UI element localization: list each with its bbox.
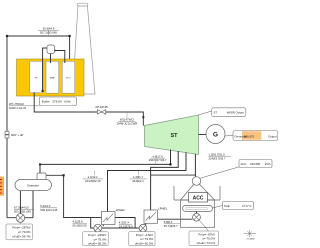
svg-text:1MW-JC1LCWR: 1MW-JC1LCWR — [117, 121, 138, 125]
stream label T3 — [117, 112, 138, 125]
ACC label box — [189, 193, 208, 203]
wire LPHE2 right to pump Pb — [115, 218, 139, 229]
ACC duty label box — [239, 160, 272, 168]
svg-text:60.7|0|66.7: 60.7|0|66.7 — [164, 224, 178, 228]
stream label e — [209, 152, 232, 160]
generator output label box — [233, 131, 278, 141]
wire extraction 3 (to LPHE2) — [108, 152, 187, 211]
svg-text:u= 75.0%: u= 75.0% — [202, 237, 215, 241]
svg-text:60.2|0|3.09: 60.2|0|3.09 — [73, 223, 87, 227]
leader to ST output box — [199, 111, 212, 115]
wire deaerator dome riser — [39, 165, 41, 174]
boiler furnace box — [17, 59, 85, 96]
wire main steam: SH down, across to turbine — [34, 92, 143, 125]
node dot drum right — [54, 50, 56, 52]
svg-text:W6SR Output: W6SR Output — [227, 110, 244, 114]
wire LPHE2 left run — [91, 217, 102, 219]
wire feedwater pump run — [7, 217, 33, 219]
svg-text:LPHE2: LPHE2 — [116, 208, 125, 212]
svg-text:ST: ST — [214, 110, 218, 114]
stream label f — [119, 221, 133, 229]
wire deaerator to feed pump — [19, 191, 21, 213]
svg-text:kVth: kVth — [265, 162, 271, 166]
stream label T1 — [38, 27, 59, 36]
valve V1 main steam — [97, 110, 105, 115]
node dot deaerator riser corner — [39, 163, 41, 165]
svg-text:244.8|0|2.18: 244.8|0|2.18 — [85, 179, 101, 183]
heat exchanger LPHE2 — [102, 208, 126, 225]
svg-text:ST: ST — [171, 133, 179, 139]
svg-text:LPHE1: LPHE1 — [158, 207, 167, 211]
svg-text:24.1|0|79.0: 24.1|0|79.0 — [119, 225, 133, 229]
steam turbine ST — [145, 115, 199, 155]
chimney stack — [72, 3, 95, 94]
stream label g — [164, 220, 180, 228]
svg-text:EVAP: EVAP — [50, 77, 56, 80]
wire deaerator drain 2 — [32, 191, 34, 218]
wire LPHE1 drain stub — [145, 223, 147, 225]
svg-text:uKuE= 74.0%: uKuE= 74.0% — [197, 241, 216, 245]
svg-text:Boiler 376.04 kVth: Boiler 376.04 kVth — [42, 100, 71, 104]
svg-text:u= 79.0%: u= 79.0% — [18, 230, 31, 234]
svg-text:ECO: ECO — [66, 78, 71, 80]
node dot ext1 corner — [169, 163, 171, 165]
svg-text:509.4|0|1.045: 509.4|0|1.045 — [40, 208, 57, 212]
svg-text:Pmp= -4.5kV: Pmp= -4.5kV — [136, 233, 153, 237]
wire feedwater top line — [7, 36, 70, 63]
svg-text:244|0|2.1: 244|0|2.1 — [132, 179, 144, 183]
wire H4 LPHE1 feed tee — [151, 174, 196, 176]
wire drum bottom to EVAP — [50, 54, 52, 64]
leader to ACC duty box — [200, 167, 239, 178]
pump VP (feedwater) — [16, 214, 25, 224]
stream label a2 — [14, 206, 34, 214]
svg-text:299.8|37.9|6.7: 299.8|37.9|6.7 — [149, 158, 167, 162]
leader to generator output box — [225, 135, 234, 138]
pump Pa (condensate) — [94, 224, 102, 232]
boiler label box — [40, 97, 77, 106]
stream label b2 — [40, 204, 57, 212]
svg-text:ACC: ACC — [241, 162, 247, 166]
valve V2 on left line (double flange) — [5, 131, 9, 138]
value box A — [6, 224, 33, 240]
leader Pa to box B — [94, 231, 97, 233]
wire LPHE2 drain stub — [102, 225, 104, 227]
svg-text:uKuE= 60.3%: uKuE= 60.3% — [135, 242, 154, 246]
pump Pc (ACC condensate) — [193, 213, 201, 221]
wire shaft — [199, 134, 207, 136]
wire LPHE1 right to ACC — [158, 218, 193, 220]
node dot eco corner — [69, 35, 71, 37]
wire drum left downcomer — [43, 48, 47, 91]
leader to tank box — [213, 206, 223, 209]
svg-text:uKuE= 99.7%: uKuE= 99.7% — [12, 234, 31, 238]
wire drum right to ECO — [55, 51, 65, 64]
heating surface EVAP — [46, 61, 59, 93]
stream label f2 — [73, 219, 88, 227]
svg-text:ACC: ACC — [193, 196, 204, 202]
svg-text:506.675: 506.675 — [244, 134, 255, 138]
stream label T2 — [9, 102, 40, 110]
value box B — [83, 232, 109, 246]
svg-text:27.2|kW: 27.2|kW — [247, 239, 256, 241]
svg-text:507.2|0|3.045: 507.2|0|3.045 — [40, 31, 57, 35]
stream label d2 — [130, 171, 147, 184]
ST output label box — [212, 108, 246, 117]
leader Pc to box D — [200, 221, 209, 232]
orange highlight strip (cut off box at left edge) — [0, 177, 4, 196]
node dot downcomer end — [42, 90, 44, 92]
svg-text:230.896: 230.896 — [250, 162, 261, 166]
stream label c — [149, 154, 167, 164]
condensate tank — [183, 205, 213, 211]
node dot dome line — [63, 174, 65, 176]
tank label box — [223, 202, 254, 210]
wire tank to ACC pump — [196, 211, 198, 213]
svg-text:27.0 °C: 27.0 °C — [242, 204, 251, 208]
ambient symbol — [244, 230, 257, 237]
svg-text:224|63.7|65.7: 224|63.7|65.7 — [209, 156, 226, 160]
wire condensate drop and runs — [64, 175, 94, 228]
value box D — [189, 231, 219, 246]
svg-text:Pmp= -287kV: Pmp= -287kV — [12, 225, 30, 229]
wire extraction 2 (to LPHE1) — [151, 151, 179, 210]
deaerator vessel — [15, 180, 52, 191]
leader Pb to box C — [140, 231, 142, 233]
svg-text:505.2|0|1.045: 505.2|0|1.045 — [14, 210, 31, 214]
ACC A-frame — [174, 181, 220, 227]
svg-text:Tank: Tank — [224, 204, 231, 208]
wire exhaust to ACC — [194, 154, 196, 177]
wire condensate main run — [91, 227, 144, 229]
heat exchanger LPHE1 — [144, 207, 168, 224]
wire dome right to condensate drop — [46, 174, 64, 176]
wire extraction 1 (to deaerator) — [40, 150, 171, 174]
svg-text:1MW-J-G1-W: 1MW-J-G1-W — [9, 106, 26, 110]
svg-text:u= 79.0%: u= 79.0% — [140, 237, 153, 241]
node dot steam corner — [142, 116, 144, 118]
pump Pb (drain) — [139, 224, 147, 232]
deaerator dome — [37, 173, 46, 181]
svg-text:629° + uP: 629° + uP — [11, 133, 24, 137]
heating surface SH — [30, 61, 43, 92]
svg-text:uKuE= 60.3%: uKuE= 60.3% — [88, 242, 107, 246]
wire left feedwater vertical — [6, 36, 8, 218]
stream label d — [83, 171, 104, 184]
generator G — [206, 125, 225, 144]
drum — [47, 45, 55, 54]
svg-text:u= 79.0%: u= 79.0% — [94, 237, 107, 241]
heating surface ECO — [62, 61, 74, 93]
svg-text:2P-46745: 2P-46745 — [95, 105, 108, 109]
svg-text:G: G — [213, 131, 218, 138]
svg-text:Pmp= -87kV: Pmp= -87kV — [198, 232, 215, 236]
svg-text:Pmp= -225kV: Pmp= -225kV — [88, 233, 106, 237]
svg-text:Deaerator: Deaerator — [27, 183, 39, 187]
node dot left corner — [6, 35, 8, 37]
value box C — [129, 232, 155, 246]
ACC steam duct circle — [192, 177, 201, 186]
svg-text:Output: Output — [268, 134, 277, 138]
